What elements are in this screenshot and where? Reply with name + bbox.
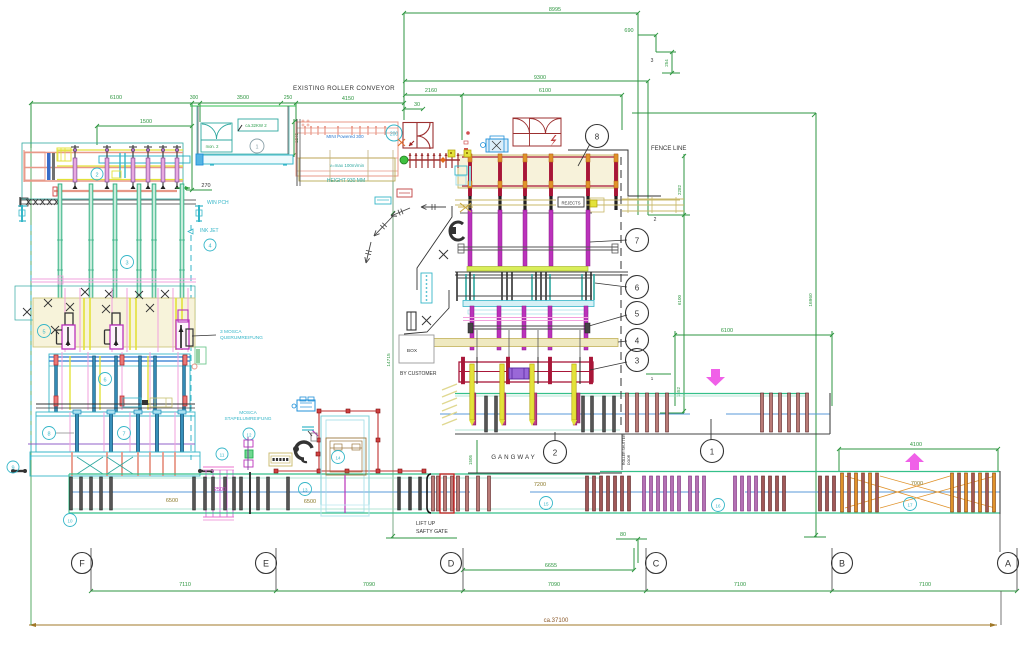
svg-text:INK JET: INK JET xyxy=(200,228,219,234)
ca.32KW box xyxy=(238,119,278,131)
cyan transfer rail xyxy=(99,156,190,163)
dim 6655 xyxy=(463,569,634,571)
violet unit xyxy=(509,368,529,379)
svg-text:2282: 2282 xyxy=(677,184,682,195)
green coil xyxy=(195,347,206,364)
dim 14715 vertical xyxy=(392,170,394,538)
dim 270 xyxy=(186,189,212,191)
row78 outline xyxy=(36,412,195,452)
central long thin verticals xyxy=(476,330,478,360)
rollers group dark left2 xyxy=(193,477,196,510)
row5 pink thin verticals xyxy=(64,288,66,352)
central rail 278 296 xyxy=(457,277,592,279)
row6 top rails xyxy=(49,356,190,358)
existing conveyor lower box xyxy=(299,158,395,181)
svg-text:7100: 7100 xyxy=(919,582,931,588)
blue vertical bar xyxy=(47,153,51,180)
circle 200 xyxy=(386,125,402,141)
khaki side brackets xyxy=(590,198,604,212)
row6 magenta verticals xyxy=(61,352,63,410)
mon box xyxy=(201,140,232,152)
svg-text:5: 5 xyxy=(42,330,45,336)
flow arrow path xyxy=(421,206,446,208)
rollers sparse mid xyxy=(257,477,260,510)
pink arrow up xyxy=(905,453,924,470)
fence dashed vertical xyxy=(620,157,622,427)
svg-text:6100: 6100 xyxy=(677,294,682,305)
svg-text:FENCE LINE: FENCE LINE xyxy=(651,146,686,152)
svg-text:3: 3 xyxy=(651,58,654,64)
gangway rollers dark xyxy=(485,396,488,432)
dim 254 step xyxy=(655,35,657,52)
yellow green band xyxy=(467,267,588,272)
svg-text:2160: 2160 xyxy=(425,88,437,94)
svg-text:8: 8 xyxy=(595,133,600,142)
svg-text:B: B xyxy=(839,559,845,569)
circle 6 xyxy=(99,373,112,386)
conveyor17 rollers left xyxy=(841,473,844,512)
grid verticals xyxy=(90,548,92,591)
row6 red clamps xyxy=(54,355,58,365)
central dark rails 272 xyxy=(455,271,628,273)
svg-text:11: 11 xyxy=(220,453,225,458)
row78 blue verticals xyxy=(76,412,79,452)
left machine outline xyxy=(22,143,183,199)
svg-text:2: 2 xyxy=(654,217,657,223)
svg-text:3: 3 xyxy=(125,261,128,267)
central magenta verticals upper xyxy=(468,210,472,266)
gangway conveyor rails xyxy=(455,393,808,395)
svg-text:ca.32KW 2: ca.32KW 2 xyxy=(245,123,267,128)
dim 2282 6100 vertical xyxy=(683,154,685,413)
red outline box xyxy=(397,189,412,197)
blue machine icon 13 xyxy=(297,400,315,411)
existing conveyor frame xyxy=(296,122,398,176)
orange X mark xyxy=(398,139,405,146)
salmon lower rail xyxy=(54,190,177,192)
light cyan band2 xyxy=(468,310,588,314)
black cabinet xyxy=(407,312,416,330)
gangway rollers brown B xyxy=(761,393,764,432)
yellow verticals in frame xyxy=(470,364,474,420)
black dumbbell right xyxy=(199,470,213,472)
cyan small boxes xyxy=(455,166,467,175)
win pch conveyor xyxy=(20,199,196,201)
svg-text:10: 10 xyxy=(67,519,73,524)
svg-text:7090: 7090 xyxy=(548,582,560,588)
svg-text:690: 690 xyxy=(624,28,633,34)
central frame small black posts xyxy=(476,357,478,384)
svg-text:7110: 7110 xyxy=(179,582,191,588)
svg-text:12: 12 xyxy=(246,433,252,438)
svg-text:3: 3 xyxy=(635,357,640,366)
svg-text:300: 300 xyxy=(190,95,199,101)
svg-text:7100: 7100 xyxy=(734,582,746,588)
robot magenta mark xyxy=(312,430,318,436)
double door symbol xyxy=(403,123,433,149)
robot C central xyxy=(450,222,464,240)
circle 7 central xyxy=(626,229,649,252)
svg-text:9300: 9300 xyxy=(534,75,546,81)
rollers group dark left xyxy=(70,477,73,510)
svg-text:8995: 8995 xyxy=(549,7,561,13)
svg-text:GANGWAY: GANGWAY xyxy=(491,454,537,461)
circle 4 label xyxy=(204,239,216,251)
turn station rails xyxy=(203,466,234,468)
svg-text:2500: 2500 xyxy=(214,487,226,493)
turn station verticals xyxy=(205,470,207,517)
pink arrow down xyxy=(706,369,725,386)
circle 13 xyxy=(299,483,312,496)
svg-text:250: 250 xyxy=(284,95,293,101)
machine 14 magenta line xyxy=(344,475,346,513)
cyan dotted ladder xyxy=(421,273,432,303)
red square mid fence xyxy=(316,452,320,456)
svg-text:1: 1 xyxy=(710,448,715,457)
red cross marks left end xyxy=(302,120,305,122)
circle 9 xyxy=(7,461,19,473)
mint conveyor bars xyxy=(58,184,62,304)
svg-text:4: 4 xyxy=(635,337,640,346)
central orange caps xyxy=(468,154,472,162)
crimson frame xyxy=(459,362,593,382)
green node circle xyxy=(400,156,408,164)
bottom conveyor rails xyxy=(69,473,600,475)
black bracket xyxy=(427,474,431,513)
rollers group brown mid xyxy=(432,476,435,511)
pink rails lower xyxy=(463,317,588,319)
left machine left end xyxy=(23,150,25,182)
lightning bolt xyxy=(551,135,557,147)
svg-text:1500: 1500 xyxy=(140,119,152,125)
line to A bubble xyxy=(999,514,1001,552)
black dumbbell left xyxy=(12,470,26,472)
rejects label xyxy=(558,197,584,207)
svg-text:4100: 4100 xyxy=(910,442,922,448)
fence polyline xyxy=(568,150,661,196)
svg-text:6100: 6100 xyxy=(721,328,733,334)
svg-text:80: 80 xyxy=(620,532,626,538)
rollers group dark mid xyxy=(398,477,401,510)
cyan double verticals xyxy=(119,153,121,178)
circle 10 xyxy=(64,514,77,527)
row78 violet rail xyxy=(28,443,195,445)
red dots xyxy=(466,131,470,135)
row6 yellow verticals xyxy=(69,356,71,410)
svg-text:mon. 2: mon. 2 xyxy=(206,144,219,149)
strapping machine 1 xyxy=(65,313,73,325)
svg-text:QUERUMREIFUNG: QUERUMREIFUNG xyxy=(220,335,263,341)
motor icon blue xyxy=(486,139,508,152)
central crimson rails xyxy=(462,156,618,158)
circle 2 xyxy=(91,168,103,180)
strapping heads row xyxy=(74,145,76,188)
machine 14 inner frame xyxy=(326,438,366,475)
svg-text:ROLLER SHUTTER: ROLLER SHUTTER xyxy=(622,434,626,465)
cyan bracket right xyxy=(198,205,200,222)
svg-text:9: 9 xyxy=(11,466,14,472)
cyan outline box xyxy=(375,197,391,204)
circle 7 left xyxy=(118,427,131,440)
bottom frame X brace xyxy=(77,457,103,474)
overall dim ca.37100 xyxy=(29,624,997,626)
svg-text:BOX: BOX xyxy=(407,348,418,354)
central black bars below xyxy=(468,196,471,210)
svg-text:6500: 6500 xyxy=(166,498,178,504)
svg-text:1505: 1505 xyxy=(468,454,473,465)
box by customer xyxy=(399,335,434,363)
svg-text:STAPELUMREIFUNG: STAPELUMREIFUNG xyxy=(224,416,271,422)
svg-text:6655: 6655 xyxy=(545,563,557,569)
svg-text:13: 13 xyxy=(302,488,308,493)
svg-text:1552: 1552 xyxy=(676,386,681,397)
row6 verticals xyxy=(55,356,58,412)
svg-text:254: 254 xyxy=(664,59,669,67)
dim 9300 xyxy=(405,80,648,82)
svg-text:14: 14 xyxy=(335,456,341,461)
svg-text:6: 6 xyxy=(635,284,640,293)
gray vertical bar xyxy=(52,153,55,180)
dim 6100 gangway xyxy=(675,334,832,336)
row78 top tees xyxy=(73,410,81,414)
svg-text:4: 4 xyxy=(208,244,211,250)
dim 690 xyxy=(638,34,656,36)
svg-text:6100: 6100 xyxy=(110,95,122,101)
central magenta verticals lower xyxy=(470,306,474,350)
dim 4100 xyxy=(839,448,998,450)
transfer comb xyxy=(406,159,460,161)
svg-text:16960: 16960 xyxy=(808,293,814,307)
rollers brown before 17 xyxy=(762,476,765,511)
fan symbol teal xyxy=(201,123,232,140)
central top khaki band xyxy=(458,155,618,188)
circle 3 xyxy=(121,256,134,269)
X mark A xyxy=(439,250,448,259)
dim 1245 vertical xyxy=(293,119,295,157)
existing conveyor left end bars xyxy=(296,119,298,186)
svg-text:7000: 7000 xyxy=(911,481,923,487)
svg-text:16: 16 xyxy=(715,504,721,509)
svg-text:ca.37100: ca.37100 xyxy=(544,618,569,624)
central black verticals mid xyxy=(456,272,458,301)
svg-text:HEIGHT 930 MM: HEIGHT 930 MM xyxy=(327,178,365,184)
svg-text:REJECTS: REJECTS xyxy=(561,200,580,205)
circle 8 left xyxy=(43,427,56,440)
machine enclosure box xyxy=(197,106,289,154)
rollers group violet 16 xyxy=(643,476,646,511)
svg-text:270: 270 xyxy=(201,183,210,189)
circle 1 gangway xyxy=(701,440,724,463)
svg-text:17: 17 xyxy=(907,503,913,508)
svg-text:F: F xyxy=(79,559,85,569)
svg-text:6100: 6100 xyxy=(539,88,551,94)
gangway rollers magenta xyxy=(472,393,476,425)
orange diamond xyxy=(440,157,446,163)
svg-text:15: 15 xyxy=(543,502,549,507)
svg-text:E: E xyxy=(263,559,269,569)
green arrow right xyxy=(176,187,190,189)
row5 X marks xyxy=(23,308,31,316)
dashed cyan border right xyxy=(190,225,192,460)
red highlight rect on rollers xyxy=(440,474,454,513)
svg-text:14715: 14715 xyxy=(386,353,392,367)
dim 8995 top xyxy=(404,12,638,14)
strapping machine 2 xyxy=(112,313,120,325)
svg-text:6500: 6500 xyxy=(304,499,316,505)
safety fence red xyxy=(319,410,378,412)
central crimson verticals top xyxy=(468,154,472,196)
red arrow mark xyxy=(409,141,414,146)
dim 2160 6100 xyxy=(405,94,622,96)
mosca querumreifung label xyxy=(192,335,216,336)
machine 14 base xyxy=(321,505,369,516)
svg-text:D: D xyxy=(448,559,455,569)
khaki band 342 xyxy=(428,339,618,347)
bottom frame outline xyxy=(30,452,200,476)
svg-text:2: 2 xyxy=(95,173,98,179)
khaki hatch column xyxy=(442,384,457,390)
rollers group violet 16b xyxy=(689,476,692,511)
svg-text:2: 2 xyxy=(553,449,558,458)
circle 16 xyxy=(712,499,725,512)
dim 16960 line xyxy=(632,112,816,114)
light cyan band xyxy=(463,301,594,307)
dim 30 xyxy=(404,108,423,110)
svg-text:LIFT UP: LIFT UP xyxy=(416,521,436,527)
svg-text:SAFTY GATE: SAFTY GATE xyxy=(416,529,448,535)
dim 1500 xyxy=(97,125,192,127)
khaki trestle xyxy=(460,203,471,212)
yellow squares xyxy=(448,150,455,157)
svg-text:7200: 7200 xyxy=(534,482,546,488)
cyan bracket left xyxy=(21,205,23,222)
svg-text:7090: 7090 xyxy=(363,582,375,588)
red end box xyxy=(53,187,57,196)
dim 1505 xyxy=(476,440,478,474)
conveyor17 rollers right xyxy=(951,473,954,512)
robot label box xyxy=(302,426,314,428)
crimson frame posts xyxy=(461,357,465,384)
central teal verticals mid xyxy=(465,274,467,300)
row78 pink verticals xyxy=(69,412,71,452)
row6 mid boxes xyxy=(123,398,141,407)
svg-text:3500: 3500 xyxy=(237,95,249,101)
row6 bottom rails xyxy=(36,403,195,405)
grid bubbles A-F xyxy=(72,553,93,574)
grid dimension line xyxy=(91,590,1017,592)
svg-text:3 MOSCA: 3 MOSCA xyxy=(220,329,242,335)
black rail under segments xyxy=(460,212,592,214)
svg-text:BY CUSTOMER: BY CUSTOMER xyxy=(400,371,437,377)
svg-text:1: 1 xyxy=(255,145,258,151)
yellow mini rect fence xyxy=(590,200,597,207)
row6 outline xyxy=(49,354,190,412)
circle 1 small xyxy=(250,139,264,153)
gangway rollers brown A xyxy=(626,393,629,432)
circle 11 xyxy=(216,448,228,460)
svg-text:30: 30 xyxy=(414,102,420,108)
row5 yellow verticals xyxy=(83,298,85,350)
svg-text:C: C xyxy=(653,559,660,569)
svg-text:200: 200 xyxy=(390,132,399,138)
conveyor17 hatch xyxy=(845,476,950,508)
svg-text:8: 8 xyxy=(47,432,50,438)
strapper 11 unit xyxy=(244,440,253,447)
row5 outline xyxy=(15,286,195,320)
svg-text:7: 7 xyxy=(635,237,640,246)
machine 14 outline xyxy=(321,416,369,516)
svg-text:v=max 100m/min: v=max 100m/min xyxy=(330,163,365,168)
existing conveyor roller marks xyxy=(304,126,306,135)
svg-text:7: 7 xyxy=(122,432,125,438)
circle 15 xyxy=(540,497,553,510)
central gray rails xyxy=(458,246,618,248)
svg-text:WIN PCH: WIN PCH xyxy=(207,200,229,206)
left machine salmon rails xyxy=(24,152,183,154)
strapping machine 3 xyxy=(176,320,189,349)
svg-text:6: 6 xyxy=(103,378,106,384)
yellow small box mid xyxy=(112,171,121,178)
circle 14 xyxy=(332,451,345,464)
svg-text:MINI Powered 300: MINI Powered 300 xyxy=(326,134,364,139)
operator boundary xyxy=(417,206,452,290)
circle 4 central xyxy=(626,329,649,352)
circle 2 gangway xyxy=(544,441,567,464)
circle 5 xyxy=(38,325,51,338)
svg-text:MOSCA: MOSCA xyxy=(239,410,257,416)
pink separator line xyxy=(31,278,196,280)
red fan box xyxy=(513,118,561,146)
conveyor divider bracket xyxy=(249,472,251,514)
circle 6 central xyxy=(626,276,649,299)
yellow feeder box xyxy=(57,148,71,161)
svg-text:5: 5 xyxy=(635,310,640,319)
central dark rail 326 xyxy=(469,325,590,327)
circle 3 central xyxy=(626,349,649,372)
yellow dddd box xyxy=(269,453,292,466)
circle 8 central xyxy=(586,125,609,148)
bottom frame salmon verticals xyxy=(71,452,73,476)
circle 12 xyxy=(243,428,255,440)
svg-text:4150: 4150 xyxy=(342,96,354,102)
circle 5 central xyxy=(626,302,649,325)
dashed cyan border left xyxy=(30,225,32,460)
svg-text:DOOR: DOOR xyxy=(627,454,631,465)
circle 17 xyxy=(904,498,917,511)
X mark B xyxy=(422,316,431,325)
svg-text:EXISTING ROLLER CONVEYOR: EXISTING ROLLER CONVEYOR xyxy=(293,85,395,92)
rollers group brown right of 15 xyxy=(586,476,589,511)
svg-text:A: A xyxy=(1005,559,1011,569)
dim row 6100 300 3500 250 4150 xyxy=(31,102,404,104)
left machine yellow rails xyxy=(57,149,183,151)
robot arm xyxy=(295,442,312,459)
